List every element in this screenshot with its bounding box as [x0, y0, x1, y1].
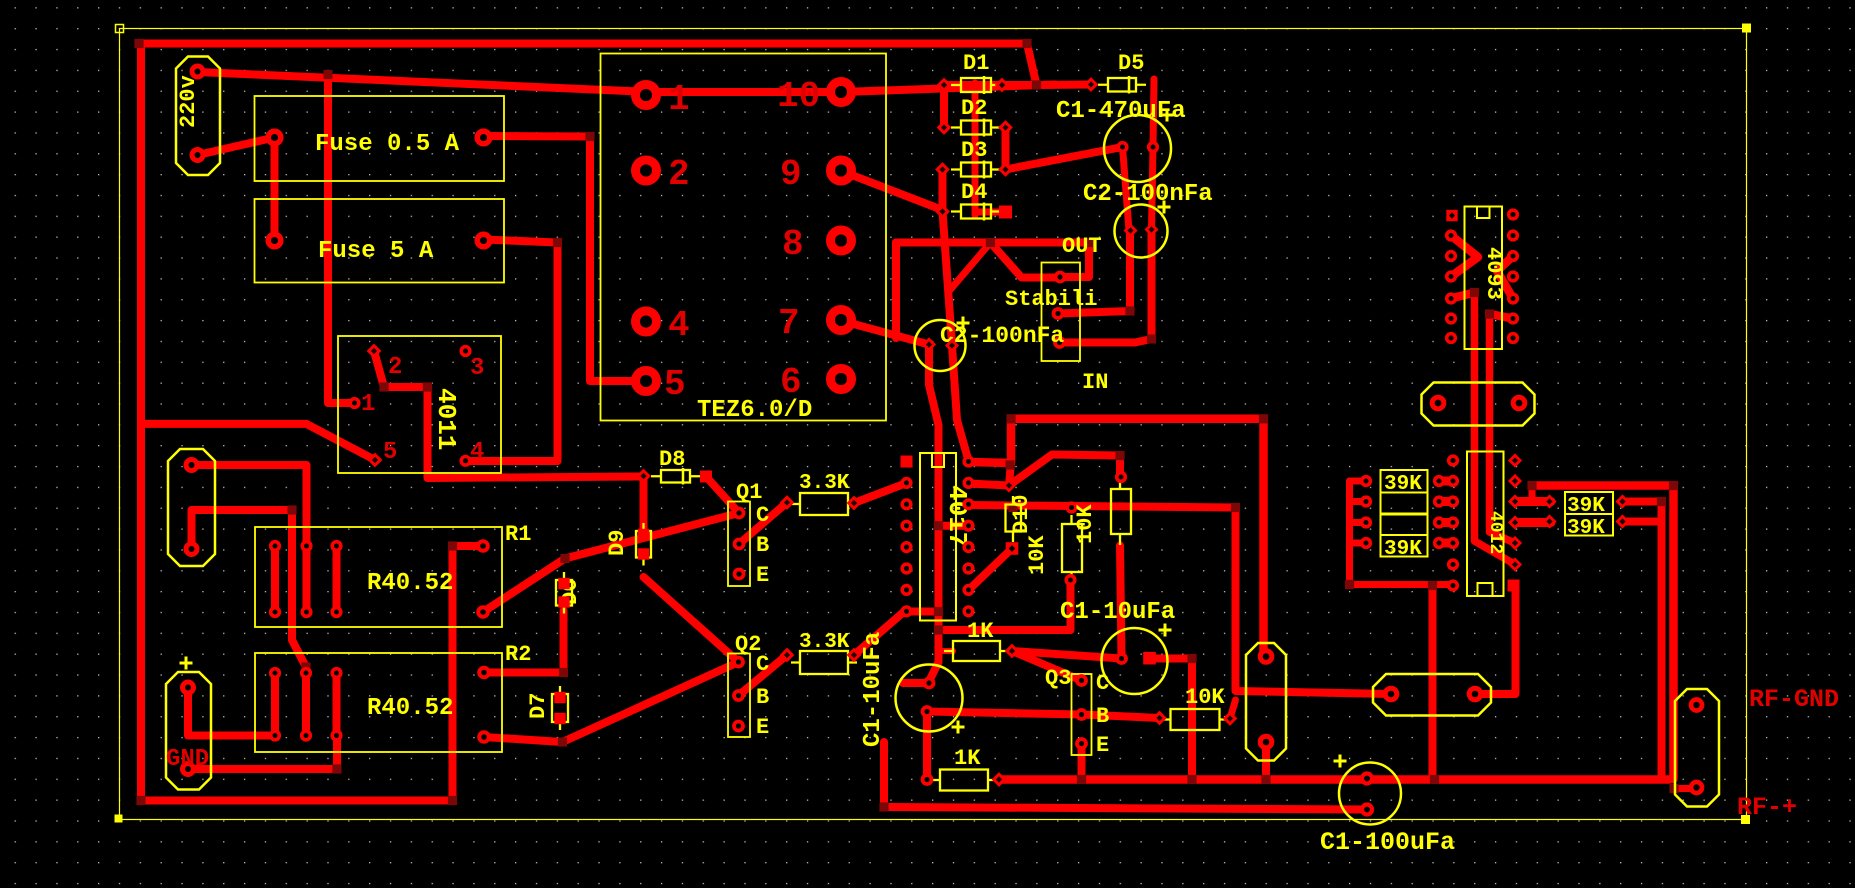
resistor network 39K right [1542, 492, 1629, 540]
svg-text:9: 9 [780, 154, 802, 195]
svg-text:Q1: Q1 [736, 480, 762, 505]
svg-text:B: B [1096, 704, 1109, 729]
capacitor C2-100nFa second [915, 317, 1065, 372]
svg-text:C1-100uFa: C1-100uFa [1320, 828, 1455, 857]
svg-text:6: 6 [780, 362, 802, 403]
wire 10K bottom [939, 580, 1071, 630]
svg-text:C: C [756, 503, 769, 528]
svg-text:4: 4 [470, 439, 484, 466]
transistor Q1 [728, 480, 769, 588]
diode D5 [1084, 51, 1146, 94]
svg-text:7: 7 [778, 303, 800, 344]
svg-text:3: 3 [470, 355, 484, 382]
wire long bottom bus [999, 775, 1669, 784]
svg-text:R40.52: R40.52 [367, 695, 453, 722]
diode D3 [935, 138, 1013, 179]
wire stub [1529, 486, 1536, 502]
IC U4 4093 [1446, 207, 1517, 350]
svg-text:4011: 4011 [431, 388, 461, 450]
relay R2 R40.52 [255, 642, 531, 752]
resistor 1K lower [923, 746, 1007, 791]
wire D2 to D3 [1002, 128, 1010, 170]
wire fuse1 to fuse2 left [271, 138, 279, 241]
wire 39K bus [1350, 481, 1454, 585]
wire TEZ pin7 to C2 [839, 320, 929, 345]
connector pad RF [1675, 689, 1719, 807]
IC U3 4012 [1467, 452, 1522, 597]
wire to C1-10uFa upper [929, 662, 939, 682]
svg-text:C: C [756, 652, 769, 677]
wire 4011 pin2 to D8 [374, 351, 644, 478]
svg-text:39K: 39K [1567, 517, 1605, 540]
wire 3.3K to 4017 pin8 [854, 610, 907, 656]
wire 3.3K to 4017 pin2 [854, 483, 907, 503]
wire R1 to Q1 C [483, 513, 739, 612]
wire 220v to fuse1 [198, 138, 275, 156]
svg-text:Fuse 0.5 A: Fuse 0.5 A [315, 131, 460, 158]
svg-text:4012: 4012 [1485, 511, 1505, 554]
svg-text:D8: D8 [659, 447, 685, 472]
diode D1 [937, 51, 1010, 94]
svg-text:C2-100nFa: C2-100nFa [1083, 181, 1213, 208]
wire C1-470uFa to C2 left [1123, 147, 1130, 231]
connector pad GND [166, 657, 211, 790]
svg-text:D1: D1 [963, 51, 989, 76]
wire R2 column a [271, 673, 279, 736]
svg-text:R2: R2 [505, 642, 531, 667]
wire fuse1 right to TEZ pin5 [484, 136, 647, 381]
wire D4 to C2 right [943, 212, 953, 345]
wire R2 column c [333, 673, 341, 736]
wire RF pad stub [1674, 785, 1697, 792]
wire pad to R2 middle column [192, 510, 307, 736]
wire 1K left lead [939, 648, 954, 654]
wire 4012 square to pad [1475, 592, 1516, 695]
svg-text:39K: 39K [1567, 495, 1605, 518]
node RF-GND [1749, 685, 1839, 714]
node RF-+ [1737, 793, 1797, 822]
svg-text:RF-+: RF-+ [1737, 793, 1797, 822]
diode D8 [636, 447, 712, 485]
wire to 4011 pin5 [141, 424, 375, 460]
wire C1-10uFa right down [1156, 659, 1192, 780]
resistor network 39K left [1362, 456, 1458, 590]
svg-text:10: 10 [777, 76, 820, 117]
wire R1 right to bottom bus [141, 546, 483, 801]
wire 4093 zigzag right [1497, 256, 1513, 299]
transformer pin numbers [664, 76, 820, 405]
wire C2 to stabilizer IN [1060, 230, 1152, 343]
wire R1 column c [333, 546, 341, 612]
wire pad to R1 middle column [192, 465, 307, 612]
wire pad to bottom bus [1262, 742, 1270, 780]
wire D3 to C1-470uFa [1006, 147, 1123, 170]
wire bottom to C1-100uFa [884, 742, 1367, 810]
svg-text:D4: D4 [961, 180, 987, 205]
wire 39K lead2 [1350, 498, 1367, 505]
wire vertical near TEZ [892, 243, 900, 339]
wire R2 to Q2 C [484, 662, 739, 742]
capacitor C1-10uFa left [860, 632, 965, 747]
voltage regulator Stabili [1005, 234, 1108, 395]
wire GND to R2 right column [188, 736, 337, 769]
wire 4093 zigzag left [1451, 236, 1478, 277]
wire C1-10uFa to 1K [923, 712, 931, 780]
wire 39K lead4 [1350, 540, 1367, 547]
capacitor C1-100uFa [1320, 755, 1455, 858]
transistor Q3 [1045, 666, 1109, 758]
wire 4017 to big pad [969, 419, 1264, 657]
resistor 10K vertical b [1073, 473, 1131, 545]
wire 4017 to 10K [969, 455, 1121, 486]
wire TEZ pin9 to D4 [840, 171, 943, 211]
relay R1 R40.52 [255, 522, 531, 627]
svg-text:R1: R1 [505, 522, 531, 547]
svg-text:Stabili: Stabili [1005, 287, 1097, 312]
svg-text:1: 1 [668, 79, 690, 120]
svg-text:Fuse 5 A: Fuse 5 A [318, 238, 434, 265]
svg-text:4: 4 [668, 305, 690, 346]
wire 4017 pin4 stub [939, 522, 969, 530]
capacitor C1-10uFa right [1060, 599, 1175, 694]
wire C1-10uFa to Q3 B to 10K [927, 712, 1160, 719]
capacitor C1-470uFa [1056, 98, 1186, 182]
svg-text:Q3: Q3 [1045, 666, 1071, 691]
svg-text:2: 2 [388, 354, 402, 381]
svg-text:D3: D3 [961, 138, 987, 163]
IC U2 4017 [901, 453, 973, 621]
svg-text:39K: 39K [1384, 473, 1422, 496]
resistor 10K horizontal [1152, 685, 1237, 730]
wire 39K right b [1623, 518, 1659, 526]
wire 4017 to D10 [969, 549, 1013, 591]
wire 4093 to 4012 a [1475, 293, 1516, 565]
wire 4093 to 4012 b [1490, 314, 1516, 543]
svg-text:E: E [756, 715, 769, 740]
resistor 3.3K upper [780, 472, 862, 515]
wire D1 to D5 [1037, 81, 1092, 90]
wire C1-10uFa stub [903, 679, 929, 687]
svg-text:220v: 220v [176, 75, 201, 128]
wire stabilizer top branch [991, 243, 1061, 278]
svg-text:5: 5 [664, 364, 686, 405]
diode D7 [526, 686, 568, 730]
svg-text:E: E [756, 563, 769, 588]
wire fuse2 right to 4011 pin4 [464, 240, 558, 462]
svg-text:R40.52: R40.52 [367, 570, 453, 597]
resistor 1K upper [944, 619, 1019, 661]
svg-text:8: 8 [782, 224, 804, 265]
fuse F2 Fuse 5 A [255, 199, 505, 283]
svg-text:IN: IN [1082, 370, 1108, 395]
wire GND to R2 [188, 688, 275, 736]
board outline frame [115, 24, 1752, 825]
svg-text:GND: GND [166, 746, 209, 773]
wire 4093 vertex b [1490, 314, 1514, 319]
wire Q1 B to 3.3K [739, 503, 787, 545]
wire 10K to C1-10uFa [1120, 546, 1122, 659]
svg-text:2: 2 [668, 154, 690, 195]
resistor 3.3K lower [780, 631, 862, 674]
connector pad P5 [1422, 383, 1535, 426]
svg-text:4017: 4017 [942, 485, 972, 547]
svg-text:D7: D7 [526, 693, 551, 719]
wire D9 bottom to Q2 C [644, 577, 739, 662]
fuse F1 Fuse 0.5 A [255, 96, 505, 181]
wire D8 left to D9 top [640, 477, 648, 534]
diode D10 [1006, 494, 1035, 554]
wire D1 row [944, 81, 1037, 89]
svg-text:D2: D2 [961, 96, 987, 121]
transistor Q2 [728, 632, 769, 740]
capacitor C2-100nFa [1083, 181, 1213, 258]
svg-text:1: 1 [361, 391, 375, 418]
wire 39K double pad 1 [1439, 477, 1453, 486]
wire 4017 pin3 long net [969, 505, 1392, 694]
svg-text:B: B [756, 685, 769, 710]
wire stabilizer OUT to C2 [1058, 231, 1130, 314]
wire D6 bottom [560, 611, 568, 673]
wire D4 to pad [975, 209, 1003, 216]
wire 39K lead3 [1350, 519, 1367, 526]
wire 4012 double pad a [1515, 497, 1551, 506]
wire C2 to 4017 pin16 [952, 346, 968, 460]
wire 4017 pin8 stub [907, 608, 939, 616]
wire branch to D4 net [950, 243, 991, 291]
via [1002, 77, 1098, 492]
svg-text:C: C [1096, 671, 1109, 696]
svg-text:3.3K: 3.3K [799, 472, 850, 495]
svg-text:D5: D5 [1118, 51, 1144, 76]
IC U1 4011 [338, 336, 501, 473]
wire Q2 B to 3.3K [739, 655, 788, 696]
connector pad P4 [1373, 674, 1491, 716]
wire C2 down through 4017 [929, 346, 939, 663]
svg-text:D9: D9 [605, 530, 630, 556]
connector pad P2 [168, 449, 215, 566]
wire 1K to C1-10uFa [1012, 651, 1122, 659]
wire Q3 E down [1078, 744, 1086, 780]
resistor 10K vertical a [1025, 503, 1082, 584]
wire 39K double pad 2 [1439, 497, 1453, 506]
wire 4093 vertex [1451, 293, 1475, 299]
4011 pin numbers [361, 354, 484, 466]
diode D4 [935, 180, 1012, 221]
svg-text:C1-10uFa: C1-10uFa [860, 632, 887, 747]
svg-text:C1-10uFa: C1-10uFa [1060, 599, 1175, 626]
junction vias [134, 39, 1678, 812]
svg-text:39K: 39K [1384, 538, 1422, 561]
svg-text:E: E [1096, 733, 1109, 758]
svg-text:OUT: OUT [1062, 234, 1102, 259]
wire 1K to Q3 C [1012, 651, 1082, 681]
wire 39K right to bottom [1623, 502, 1662, 778]
wire D8 right to Q1 C [706, 477, 739, 514]
wire 4012 down to bottom bus [1429, 586, 1437, 780]
svg-text:1K: 1K [954, 746, 981, 771]
wire D5 column to C2 [1152, 79, 1155, 230]
wire 10K to vertical [1230, 700, 1236, 719]
diode D6 [556, 572, 583, 614]
svg-text:5: 5 [383, 439, 397, 466]
connector pad P3 [1246, 643, 1286, 761]
wire 39K double pad 4 [1439, 539, 1453, 548]
wire 220v to TEZ pins 1-10 to D1 [198, 72, 1056, 92]
wire 39K double pad 3 [1439, 518, 1453, 527]
wire top right net [1532, 486, 1674, 780]
svg-text:RF-GND: RF-GND [1749, 685, 1839, 714]
connector pad 220v [176, 57, 220, 176]
svg-text:10K: 10K [1073, 504, 1098, 544]
wire top horizontal [139, 44, 1037, 86]
wire R2 to D6 [484, 669, 564, 677]
wire to 4011 pin1 [328, 75, 355, 404]
wire left vertical bus [137, 44, 145, 801]
wire junction drop [1009, 463, 1011, 486]
svg-text:10K: 10K [1185, 685, 1225, 710]
wire through D1-D4 [972, 83, 979, 215]
svg-text:B: B [756, 533, 769, 558]
svg-text:4093: 4093 [1481, 247, 1506, 300]
wire stabilizer top net [896, 243, 1089, 278]
wire 39K lead1 [1350, 478, 1367, 485]
wire D1 to D2 [940, 85, 948, 128]
svg-text:10K: 10K [1025, 535, 1050, 575]
wire D3 to D4 [939, 170, 947, 212]
transformer TR1 TEZ6.0/D [601, 54, 887, 425]
wire R1 column a [271, 546, 279, 612]
diode D9 [605, 523, 651, 566]
diode D2 [937, 96, 1013, 137]
wire 4012 double pad b [1515, 518, 1551, 527]
